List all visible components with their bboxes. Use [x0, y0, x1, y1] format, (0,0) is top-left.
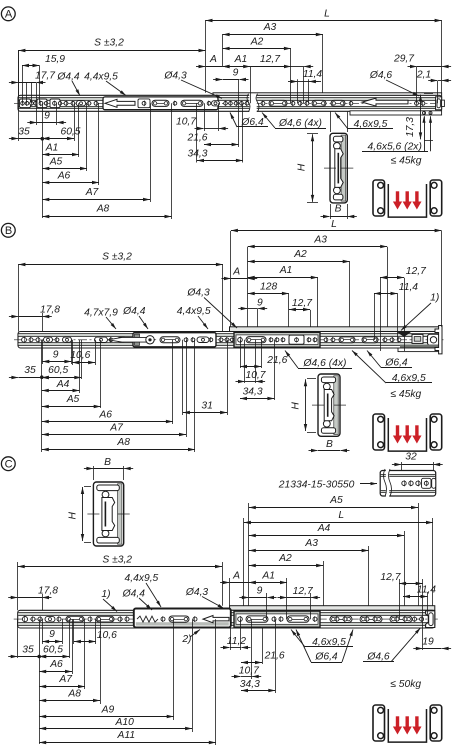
- dim L section A: [205, 20, 207, 93]
- dim 9 section B top: [257, 309, 259, 327]
- dim 12,7 section C right: [399, 579, 401, 619]
- dim 17,8 section C: [42, 594, 44, 610]
- svg-text:H: H: [67, 512, 78, 520]
- section C marker: [1, 457, 15, 471]
- dim 9 section C top: [266, 593, 268, 619]
- svg-text:A2: A2: [278, 553, 292, 564]
- dim 34,3 section B: [274, 340, 276, 400]
- svg-text:21,6: 21,6: [266, 355, 287, 366]
- dim S section C: [17, 562, 19, 610]
- svg-text:A1: A1: [234, 54, 248, 65]
- rail B latch detent: [397, 332, 411, 337]
- svg-text:17,7: 17,7: [35, 71, 56, 82]
- svg-text:Ø4,6 (4x): Ø4,6 (4x): [278, 118, 322, 129]
- svg-text:128: 128: [260, 282, 277, 293]
- dim 60,5 section B: [81, 340, 83, 379]
- svg-text:34,3: 34,3: [243, 387, 263, 398]
- svg-text:Ø4,3: Ø4,3: [185, 587, 209, 598]
- dim A11 section C: [215, 619, 217, 745]
- svg-text:A5: A5: [66, 394, 80, 405]
- dim A section C: [229, 578, 231, 606]
- mounting bracket left: [373, 180, 385, 216]
- svg-text:B: B: [326, 439, 333, 450]
- rail A bottom lip: [350, 111, 442, 115]
- dim B section B: [318, 450, 340, 452]
- svg-text:60,5: 60,5: [48, 365, 68, 376]
- dim 10,7 section C: [251, 619, 253, 679]
- svg-text:4,4x9,5: 4,4x9,5: [177, 306, 211, 317]
- svg-text:A3: A3: [304, 538, 318, 549]
- dim 10,7 section A: [204, 103, 206, 131]
- rail A raised upper member strip: [213, 93, 442, 98]
- svg-text:A3: A3: [263, 22, 277, 33]
- svg-text:A8: A8: [116, 437, 130, 448]
- rail A right holes before break: [224, 102, 228, 106]
- svg-text:Ø4,6: Ø4,6: [366, 652, 390, 663]
- svg-text:Ø4,4: Ø4,4: [56, 72, 80, 83]
- dim A6 section A: [98, 103, 100, 185]
- dim A7 section A: [150, 103, 152, 202]
- svg-text:21,6: 21,6: [264, 651, 285, 662]
- dim 10,7 section B: [244, 340, 246, 383]
- dim A6 section C: [72, 619, 74, 674]
- dim 12,7 section B right: [380, 278, 382, 351]
- svg-text:A1: A1: [261, 571, 275, 582]
- svg-text:2,1: 2,1: [416, 70, 431, 81]
- dim A4 section C: [404, 531, 406, 606]
- svg-text:≤ 50kg: ≤ 50kg: [390, 679, 421, 690]
- svg-text:9: 9: [44, 111, 50, 122]
- dim 21,6 section A: [238, 103, 240, 147]
- dim 9 section A top: [238, 79, 240, 103]
- svg-text:Ø4,3: Ø4,3: [186, 288, 210, 299]
- svg-text:≤ 45kg: ≤ 45kg: [391, 155, 422, 166]
- svg-text:A10: A10: [115, 717, 135, 728]
- dim A7 section C: [84, 619, 86, 689]
- dim A1 section B: [317, 277, 319, 327]
- svg-text:10,6: 10,6: [70, 350, 90, 361]
- dim A2 section B: [349, 261, 351, 327]
- svg-text:Ø4,6: Ø4,6: [369, 70, 393, 81]
- svg-text:A7: A7: [85, 187, 100, 198]
- dim 12,7 section C mid: [310, 593, 312, 619]
- svg-text:A3: A3: [313, 235, 327, 246]
- rail C inner member box: [234, 611, 320, 627]
- rail B detent glyph: [95, 337, 108, 342]
- red load arrows: [396, 716, 399, 727]
- rail B right holes: [324, 338, 328, 342]
- svg-text:4,4x9,5: 4,4x9,5: [125, 573, 159, 584]
- dim 35 section B: [18, 377, 41, 379]
- svg-text:1): 1): [430, 293, 439, 304]
- dim H section B: [307, 378, 316, 380]
- svg-text:A5: A5: [329, 495, 343, 506]
- svg-text:A: A: [5, 9, 13, 21]
- dim A10 section C: [192, 619, 194, 732]
- rail A end cap: [436, 97, 442, 110]
- svg-text:A4: A4: [317, 523, 331, 534]
- svg-text:Ø6,4: Ø6,4: [314, 652, 338, 663]
- svg-text:≤ 45kg: ≤ 45kg: [390, 389, 421, 400]
- svg-text:2): 2): [181, 634, 191, 645]
- dim 10,6 section C: [73, 619, 75, 644]
- svg-text:12,7: 12,7: [260, 54, 281, 65]
- svg-text:S ±3,2: S ±3,2: [102, 252, 132, 263]
- section B marker: [1, 223, 15, 237]
- svg-text:21,6: 21,6: [186, 133, 207, 144]
- rail B left holes: [22, 337, 27, 342]
- cross-section view C: [93, 482, 123, 546]
- dim A section A: [206, 66, 223, 68]
- dim 35 section A: [18, 50, 20, 141]
- dim A3 section C: [368, 546, 370, 606]
- svg-text:H: H: [297, 163, 308, 171]
- dim A1 section A bottom: [78, 103, 80, 157]
- svg-text:S ±3,2: S ±3,2: [102, 554, 132, 565]
- svg-text:A: A: [232, 571, 240, 582]
- svg-text:A8: A8: [96, 204, 110, 215]
- datum line section B: [41, 340, 43, 452]
- dim 60,5 section A: [74, 103, 76, 141]
- dim 19 section C: [422, 619, 424, 650]
- rail A middle member: [103, 97, 218, 110]
- datum line section A: [42, 103, 44, 218]
- svg-text:A9: A9: [101, 705, 115, 716]
- svg-text:12,7: 12,7: [293, 586, 314, 597]
- svg-text:A7: A7: [109, 423, 124, 434]
- svg-text:10,7: 10,7: [176, 117, 197, 128]
- dim 12,7 section A: [303, 66, 305, 103]
- dim A7 section B: [186, 340, 188, 437]
- svg-text:4,4x9,5: 4,4x9,5: [84, 72, 118, 83]
- rail B inner member box: [234, 332, 320, 347]
- svg-text:21334-15-30550: 21334-15-30550: [278, 479, 355, 490]
- mounting bracket left: [373, 705, 385, 741]
- dim 15,9 section A: [22, 66, 24, 104]
- red load arrows: [396, 191, 399, 202]
- svg-text:Ø4,6 (4x): Ø4,6 (4x): [303, 358, 347, 369]
- svg-text:Ø4,3: Ø4,3: [163, 70, 187, 81]
- svg-text:11,2: 11,2: [227, 636, 247, 647]
- svg-text:15,9: 15,9: [45, 54, 65, 65]
- svg-text:A1: A1: [279, 265, 293, 276]
- dim A5 section C: [248, 503, 250, 606]
- rail end detail with 32 dim: [380, 471, 436, 497]
- svg-text:35: 35: [22, 645, 34, 656]
- dim A2 section A: [290, 49, 292, 104]
- dim 29,7 section A: [416, 66, 418, 103]
- svg-text:9: 9: [257, 298, 263, 309]
- svg-text:B: B: [335, 204, 342, 215]
- dim 17,8 section B: [42, 313, 44, 332]
- dim A4 section B: [79, 340, 81, 393]
- mounting bracket right: [430, 414, 442, 450]
- dim 21,6 section C: [262, 628, 264, 664]
- svg-text:Ø4,4: Ø4,4: [122, 588, 146, 599]
- dim A9 section C: [173, 619, 175, 720]
- dim 17,3 section A: [424, 93, 433, 95]
- svg-text:12,7: 12,7: [380, 572, 401, 583]
- dim H section A: [307, 133, 318, 135]
- rail B end plate: [435, 326, 442, 354]
- rail A outer body: [18, 95, 442, 111]
- dim H section C: [84, 486, 91, 488]
- svg-text:35: 35: [24, 365, 36, 376]
- svg-text:A2: A2: [250, 37, 264, 48]
- svg-text:11,4: 11,4: [399, 282, 419, 293]
- svg-text:L: L: [331, 219, 337, 230]
- svg-text:A7: A7: [58, 674, 73, 685]
- svg-text:A8: A8: [67, 689, 81, 700]
- dim 21,6 section B: [240, 340, 242, 368]
- rail A right portion holes: [261, 101, 265, 105]
- rail C pointer glyph: [203, 616, 229, 623]
- dim A8 section A: [171, 103, 173, 219]
- dim A2 section C: [323, 561, 325, 606]
- dim B section C: [93, 468, 123, 470]
- dim S section A: [18, 50, 20, 96]
- svg-text:A5: A5: [49, 157, 63, 168]
- svg-text:11,4: 11,4: [303, 69, 323, 80]
- svg-text:17,8: 17,8: [38, 585, 58, 596]
- dim 9 section C bottom: [42, 619, 44, 644]
- dim A8 section C: [100, 619, 102, 704]
- rail B release lever: [108, 337, 155, 342]
- dim 32 section C: [401, 462, 403, 471]
- section A marker: [1, 7, 15, 21]
- dim 10,6 section B: [72, 340, 74, 365]
- dim 34,3 section C: [275, 619, 277, 693]
- dim A1 section C: [286, 578, 288, 619]
- svg-text:9: 9: [257, 586, 263, 597]
- svg-text:11,4: 11,4: [417, 585, 437, 596]
- svg-text:A: A: [232, 267, 240, 278]
- svg-text:29,7: 29,7: [393, 54, 415, 65]
- svg-text:L: L: [324, 9, 330, 20]
- svg-text:10,6: 10,6: [97, 630, 117, 641]
- svg-text:35: 35: [18, 127, 30, 138]
- cross-section view A: [330, 111, 332, 132]
- dim 128 section B: [288, 294, 290, 327]
- svg-text:B: B: [5, 225, 12, 237]
- dim 35 section C: [17, 619, 19, 658]
- dim A5 section A: [86, 103, 88, 171]
- datum line section C: [39, 619, 41, 744]
- rail B middle member: [133, 333, 216, 347]
- svg-text:12,7: 12,7: [292, 298, 313, 309]
- svg-text:C: C: [5, 459, 13, 471]
- svg-text:9: 9: [233, 68, 239, 79]
- svg-text:A6: A6: [98, 410, 112, 421]
- dim 9 section B bottom: [42, 340, 44, 364]
- svg-text:10,7: 10,7: [245, 370, 266, 381]
- svg-text:17,3: 17,3: [405, 117, 416, 137]
- dim 11,4 section B right: [374, 293, 376, 340]
- dim 17,7 section A: [36, 83, 38, 104]
- svg-text:4,6x5,6 (2x): 4,6x5,6 (2x): [368, 141, 422, 152]
- dim A1 section A: [250, 66, 252, 103]
- svg-text:A2: A2: [293, 249, 307, 260]
- svg-text:Ø6,4: Ø6,4: [384, 358, 408, 369]
- svg-text:60,5: 60,5: [43, 645, 63, 656]
- dim L section B: [230, 231, 232, 327]
- dim A3 section B: [247, 247, 249, 327]
- rail B outer body: [18, 332, 442, 349]
- mounting bracket right: [430, 180, 442, 216]
- svg-text:A6: A6: [49, 659, 63, 670]
- mounting bracket right: [430, 705, 442, 741]
- rail A left holes: [20, 99, 31, 108]
- svg-text:34,3: 34,3: [187, 149, 207, 160]
- svg-text:10,7: 10,7: [239, 666, 260, 677]
- load box: [388, 709, 426, 742]
- rail A latch pointer: [362, 98, 408, 106]
- load box: [388, 418, 426, 451]
- dim L section C: [243, 518, 245, 606]
- svg-text:A1: A1: [45, 143, 59, 154]
- rail C left holes: [22, 617, 27, 622]
- svg-text:Ø4,4: Ø4,4: [122, 306, 146, 317]
- dim 12,7 section B top: [289, 309, 310, 311]
- svg-text:9: 9: [53, 350, 59, 361]
- svg-text:A4: A4: [56, 379, 70, 390]
- rail C end bracket: [426, 611, 435, 628]
- dim 11,2 section C: [230, 619, 232, 650]
- dim A5 section B: [100, 340, 102, 408]
- dim A section B: [231, 278, 248, 280]
- svg-text:17,8: 17,8: [40, 305, 60, 316]
- svg-text:1): 1): [101, 589, 110, 600]
- svg-text:34,3: 34,3: [240, 679, 260, 690]
- svg-text:9: 9: [49, 629, 55, 640]
- svg-text:B: B: [104, 457, 111, 468]
- svg-text:A6: A6: [57, 171, 71, 182]
- svg-text:A: A: [209, 54, 217, 65]
- svg-text:60,5: 60,5: [60, 127, 80, 138]
- rail B end connector: [412, 334, 423, 343]
- cross-section view B: [318, 374, 340, 436]
- dim A8 section B: [194, 340, 196, 452]
- dim 11,4 section A: [297, 79, 299, 103]
- svg-text:12,7: 12,7: [406, 266, 427, 277]
- dim S section B: [18, 264, 20, 332]
- svg-text:4,7x7,9: 4,7x7,9: [84, 307, 118, 318]
- dim 2,1 section A: [437, 81, 439, 103]
- dim 9 section A bottom: [36, 103, 38, 125]
- rail C raised upper member strip: [230, 606, 435, 611]
- dim A6 section B: [172, 340, 174, 424]
- dim A3 section A: [222, 34, 224, 66]
- rail B holes after member: [219, 338, 223, 342]
- svg-text:S ±3,2: S ±3,2: [94, 38, 124, 49]
- rail B raised upper member strip: [230, 327, 442, 332]
- dim 11,4 section C right: [427, 592, 429, 615]
- rail A break: [249, 94, 256, 113]
- svg-text:31: 31: [201, 401, 212, 412]
- dim 34,3 section A: [242, 103, 244, 162]
- dim B section A: [330, 204, 332, 219]
- svg-text:H: H: [291, 402, 302, 410]
- rail B toothed strip: [400, 345, 440, 348]
- rail C right holes: [330, 616, 352, 623]
- rail C middle member: [134, 609, 231, 628]
- svg-text:L: L: [338, 510, 344, 521]
- svg-text:32: 32: [405, 452, 417, 463]
- rail C outer body: [18, 610, 435, 628]
- load box: [388, 184, 426, 217]
- rail B bottom lip: [398, 348, 442, 352]
- svg-text:A11: A11: [117, 730, 136, 741]
- dim 31 section B: [182, 340, 184, 415]
- svg-text:19: 19: [422, 636, 434, 647]
- red load arrows: [396, 425, 399, 436]
- dim 60,5 section C: [69, 619, 71, 658]
- mounting bracket left: [373, 414, 385, 450]
- rail C spring: [137, 616, 158, 622]
